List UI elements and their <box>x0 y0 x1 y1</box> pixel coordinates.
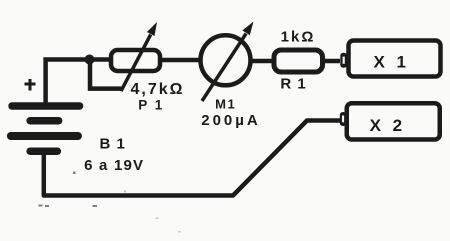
svg-text:P 1: P 1 <box>138 98 164 113</box>
svg-text:X 1: X 1 <box>373 52 409 71</box>
wire: meter to resistor R1 <box>250 59 273 64</box>
svg-text:6 a 19V: 6 a 19V <box>84 157 144 174</box>
resistor R1 body <box>274 50 323 72</box>
terminal X1 box <box>349 41 441 77</box>
svg-text:B 1: B 1 <box>100 136 126 153</box>
wire: junction down to wiper <box>90 60 121 89</box>
wire: potentiometer to meter <box>160 58 201 63</box>
battery B1 plate long 2 <box>7 132 82 140</box>
meter M1 body <box>201 35 251 85</box>
potentiometer P1 wiper arrow <box>121 22 157 91</box>
node A (junction dot) <box>85 55 95 65</box>
battery B1 plate short 1 <box>26 117 62 125</box>
speckle marks <box>39 172 182 233</box>
svg-text:M1: M1 <box>215 96 236 111</box>
battery B1 plus sign <box>25 79 36 91</box>
potentiometer P1 body <box>111 50 160 71</box>
wire: battery positive riser to top rail <box>46 60 90 105</box>
connector nub X1 <box>340 53 347 68</box>
battery B1 plate long 1 <box>8 102 83 110</box>
svg-text:X 2: X 2 <box>370 116 406 135</box>
svg-text:4,7kΩ: 4,7kΩ <box>131 81 185 98</box>
connector nub X2 <box>340 112 347 126</box>
svg-text:1kΩ: 1kΩ <box>281 29 316 46</box>
meter M1 needle arrow <box>202 22 254 102</box>
wire: resistor to X1 plug <box>323 59 340 64</box>
battery B1 plate short 2 <box>26 148 61 156</box>
svg-text:R 1: R 1 <box>280 76 306 93</box>
svg-text:200µA: 200µA <box>201 112 261 129</box>
wire: battery negative to X2 (bottom return) <box>44 121 341 196</box>
wire: junction to potentiometer left <box>90 57 111 62</box>
terminal X2 box <box>347 103 440 139</box>
